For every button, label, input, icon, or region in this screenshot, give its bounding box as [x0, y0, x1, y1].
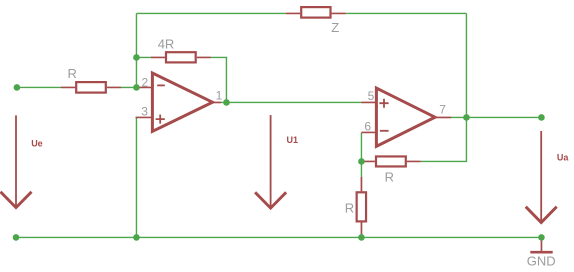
- op-amp U1 (left): [136, 73, 223, 131]
- svg-text:Z: Z: [331, 20, 339, 35]
- resistor Z: [286, 7, 346, 35]
- wire bottom ground rail: [16, 236, 541, 238]
- wire top rail right segment: [346, 12, 467, 14]
- wire vertical from top rail to inverting input node: [135, 13, 137, 87]
- wire pin3 corner down to ground rail: [135, 117, 137, 237]
- ground symbol GND: [527, 241, 556, 269]
- node Ua top: [538, 114, 545, 121]
- svg-text:R: R: [345, 201, 354, 216]
- svg-text:2: 2: [142, 75, 149, 89]
- wire feedback R right lead up to output2 node: [421, 117, 467, 161]
- node output2: [463, 114, 470, 121]
- resistor 4R: [151, 36, 211, 62]
- voltage arrow Ua: [526, 131, 570, 223]
- svg-text:6: 6: [364, 120, 371, 134]
- wire vertical from top rail to output2 node: [465, 13, 467, 117]
- svg-text:7: 7: [439, 103, 446, 117]
- node ground left: [13, 234, 20, 241]
- svg-text:Ua: Ua: [557, 152, 569, 162]
- voltage arrow Ue: [1, 115, 43, 207]
- voltage arrow U1: [255, 115, 298, 208]
- resistor R input: [61, 66, 121, 93]
- wire output2 stub to Ua node: [451, 116, 541, 118]
- svg-text:3: 3: [141, 104, 148, 118]
- svg-text:R: R: [68, 66, 77, 81]
- svg-text:Ue: Ue: [31, 138, 43, 148]
- wire pin6 corner down to feedback node: [360, 132, 362, 177]
- node 4R tap: [133, 54, 140, 61]
- svg-text:GND: GND: [527, 253, 556, 268]
- wire output1 node to pin5 stub: [221, 101, 362, 103]
- node input: [14, 84, 21, 91]
- node output1: [223, 99, 230, 106]
- svg-text:R: R: [385, 170, 394, 185]
- svg-text:4R: 4R: [158, 36, 175, 51]
- node pin2: [133, 84, 140, 91]
- node ground R: [358, 234, 365, 241]
- node feedback: [358, 158, 365, 165]
- resistor R vertical: [345, 177, 366, 237]
- resistor R feedback: [362, 156, 421, 184]
- svg-text:1: 1: [216, 89, 223, 103]
- svg-text:U1: U1: [287, 135, 299, 145]
- wire 4R right lead down to output1 node: [211, 57, 227, 102]
- wire node to 4R left lead: [136, 56, 151, 58]
- wire R right lead to pin2 node: [121, 86, 136, 88]
- wire top rail left segment: [136, 12, 286, 14]
- wire input node to R left lead: [17, 86, 61, 88]
- node ground mid: [133, 234, 140, 241]
- svg-text:5: 5: [368, 89, 375, 103]
- op-amp U2 (right): [361, 88, 451, 146]
- node ground right: [538, 234, 545, 241]
